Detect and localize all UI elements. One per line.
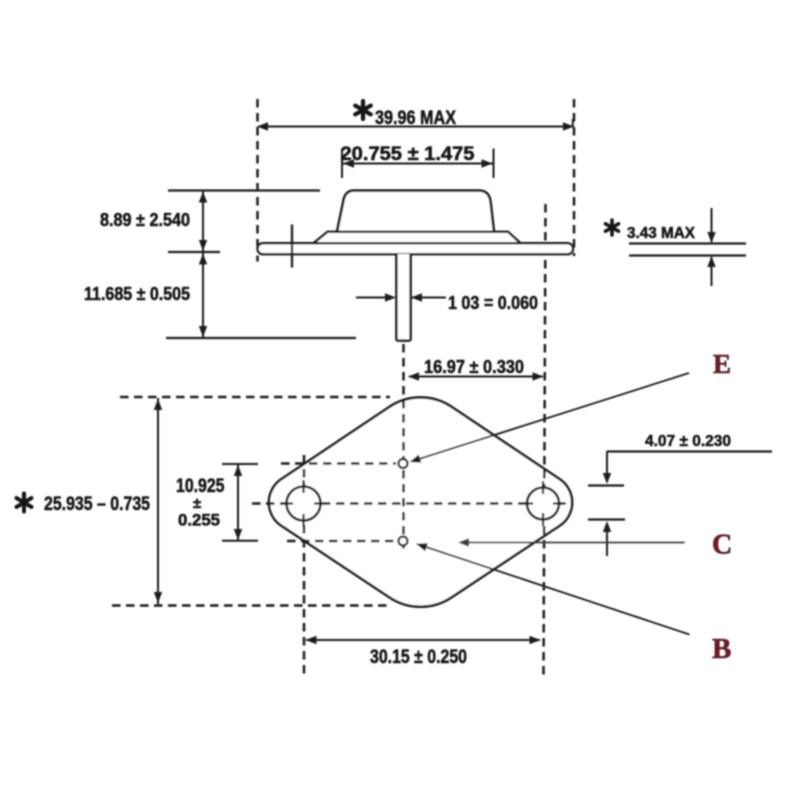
svg-text:8.89 ± 2.540: 8.89 ± 2.540 — [100, 210, 190, 230]
extension line pin end (y=338) — [166, 337, 356, 339]
shoulder step (side view) — [314, 232, 521, 243]
3.43 arrow down — [711, 208, 713, 242]
dimension 8.89 vertical — [202, 191, 204, 253]
svg-text:1 03 = 0.060: 1 03 = 0.060 — [448, 293, 538, 313]
emitter pin hole (bottom view) — [399, 459, 408, 468]
hole centermark tick on flange left — [291, 225, 293, 268]
mounting flange (side view base plate) — [258, 243, 574, 254]
base pin hole (bottom view) — [399, 537, 408, 546]
svg-text:10.925: 10.925 — [176, 476, 225, 497]
asterisk for 25.935 — [17, 494, 32, 512]
dashed horizontal through emitter pin row (y=463.5) — [281, 462, 396, 465]
leader line to E pin — [419, 373, 689, 459]
3.43 MAX reference lines — [629, 242, 746, 244]
left hole centermarks — [280, 480, 327, 527]
dimension 4.07 bracket — [607, 450, 773, 452]
dimension 20.755 end ticks — [341, 149, 343, 179]
dimension 16.97 line — [409, 376, 543, 378]
asterisk for 39.96 — [355, 101, 371, 119]
svg-text:25.935 – 0.735: 25.935 – 0.735 — [44, 494, 150, 515]
svg-text:C: C — [712, 530, 732, 561]
dashed horizontal through base pin row (y=541) — [287, 540, 396, 543]
centerline dashed vertical through right mounting hole (x=544.5) — [544, 204, 546, 675]
extension line cap top (y=190.5) — [168, 189, 320, 191]
leader line to C case — [462, 542, 685, 544]
left mounting hole — [287, 487, 321, 521]
svg-text:B: B — [712, 633, 731, 665]
leader line to B pin — [426, 547, 690, 635]
dashed horizontal through mounting holes center (y=503.5) — [252, 502, 564, 505]
lead pin (side view) — [396, 254, 410, 341]
asterisk for 3.43 — [606, 220, 619, 235]
svg-text:39.96 MAX: 39.96 MAX — [375, 108, 456, 129]
right mounting hole — [527, 488, 559, 520]
centerline dashed vertical through pin axis (x=403.5) — [402, 344, 405, 551]
centerline dashed vertical through left mounting hole (x=304) — [303, 455, 306, 675]
centerline dashed vertical at package left (x=257.5) — [256, 99, 259, 246]
dash fragment below flange left end — [256, 256, 259, 262]
svg-text:0.255: 0.255 — [178, 511, 220, 530]
3.43 arrow up — [711, 257, 713, 286]
right hole centermarks — [520, 481, 566, 526]
svg-text:16.97 ± 0.330: 16.97 ± 0.330 — [424, 357, 524, 377]
svg-text:3.43 MAX: 3.43 MAX — [627, 225, 695, 242]
dashed horizontal tangent to diamond bottom (y=605.5) — [112, 604, 388, 607]
dimension 25.935 vertical — [157, 398, 159, 604]
can cap (side view top) — [337, 191, 494, 232]
svg-text:11.685 ± 0.505: 11.685 ± 0.505 — [84, 284, 190, 304]
svg-text:30.15 ± 0.250: 30.15 ± 0.250 — [370, 646, 467, 668]
dashed horizontal tangent to diamond top (y=397) — [120, 396, 390, 399]
dimension 11.685 vertical — [202, 252, 204, 338]
extension line flange seat (y=252) — [168, 251, 220, 253]
svg-text:±: ± — [193, 495, 201, 512]
dimension 39.96 MAX line — [258, 126, 573, 128]
centerline dashed vertical at package right (x=574) — [573, 99, 576, 256]
dimension 10.925 vertical — [237, 464, 239, 541]
svg-text:20.755 ± 1.475: 20.755 ± 1.475 — [341, 144, 475, 165]
dimension 20.755 line — [342, 163, 494, 165]
dimension 1.03 pin arrows — [356, 297, 394, 299]
svg-text:4.07 ± 0.230: 4.07 ± 0.230 — [645, 433, 731, 450]
dimension 30.15 line — [306, 639, 540, 641]
svg-text:E: E — [713, 349, 731, 379]
flange outline (bottom view diamond) — [269, 397, 572, 606]
dimension 10.925 extension ticks — [222, 463, 258, 465]
